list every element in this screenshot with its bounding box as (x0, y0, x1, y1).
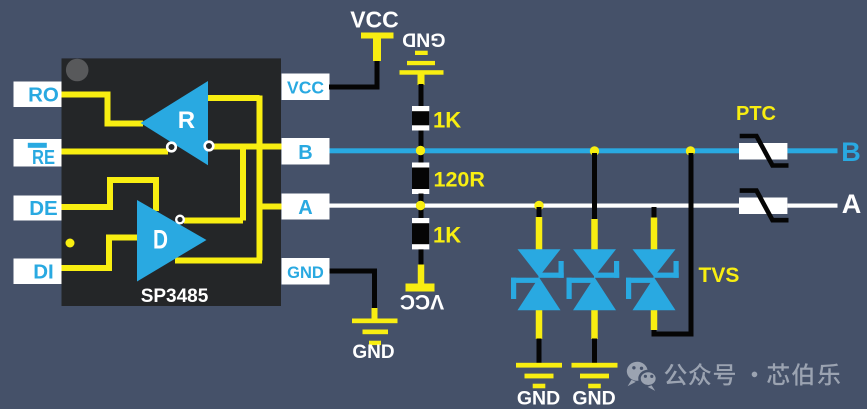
pin label DI (14, 259, 62, 285)
wire driver inverted output to B tap (184, 218, 243, 224)
svg-text:A: A (842, 189, 862, 219)
node B line (330, 148, 740, 153)
svg-text:PTC: PTC (736, 103, 776, 125)
op-amp D driver triangle (137, 200, 207, 282)
wire B net from receiver inverting input to pin B (211, 144, 282, 150)
wire driver output to A bus (175, 258, 262, 264)
pin label DE (14, 196, 62, 221)
junction dot B loop wire (686, 146, 695, 155)
wire VCC pin to VCC rail (329, 59, 377, 87)
junction dot B bias (416, 146, 425, 155)
ground TVS2 (572, 363, 618, 409)
pin label A (282, 194, 330, 220)
watermark wechat icon (627, 362, 657, 391)
junction dot B TVS2 (590, 146, 599, 155)
node A line (330, 204, 740, 208)
op-amp R receiver triangle (141, 81, 209, 165)
svg-text:1K: 1K (433, 108, 461, 133)
svg-text:GND: GND (402, 29, 445, 51)
wire GND pin to ground (330, 271, 375, 310)
TVS D2 bidirectional (567, 249, 620, 310)
svg-text:VCC: VCC (287, 78, 324, 98)
svg-text:GND: GND (352, 342, 394, 363)
svg-text:TVS: TVS (699, 264, 740, 287)
svg-text:VCC: VCC (350, 7, 399, 33)
wire DE to driver enable (61, 180, 156, 211)
svg-text:120R: 120R (434, 168, 486, 192)
watermark text (665, 363, 841, 386)
wire RO to receiver (61, 95, 143, 124)
svg-text:GND: GND (287, 264, 324, 282)
wire B to TVS2 (592, 153, 597, 221)
wire internal A bus vertical (257, 96, 263, 261)
pin label RE with overline (14, 139, 62, 169)
wire A to TVS3 (652, 207, 657, 219)
node B line after PTC (787, 148, 837, 153)
ground for GND pin (352, 308, 398, 363)
TVS D1 bidirectional (511, 249, 564, 310)
svg-text:D: D (153, 225, 168, 255)
wire B loop to TVS3 bottom (654, 153, 691, 334)
svg-text:RO: RO (28, 84, 59, 107)
junction dot A TVS1 (534, 201, 543, 210)
wire DI to driver input (61, 238, 138, 269)
power symbol VCC (flipped) at bottom of bias chain (400, 265, 444, 314)
wire RE to receiver enable (61, 149, 168, 155)
svg-text:B: B (841, 137, 861, 167)
svg-text:RE: RE (32, 146, 55, 169)
node dot near DI (66, 239, 75, 248)
TVS D3 bidirectional (626, 249, 679, 310)
svg-text:DE: DE (29, 197, 57, 220)
IC U1 SP3485 body (62, 58, 282, 307)
svg-text:R: R (178, 107, 195, 134)
wire A to TVS1 (537, 207, 542, 219)
svg-text:DI: DI (33, 261, 54, 284)
pin label VCC (282, 74, 330, 101)
wire (419, 194, 424, 219)
wire TVS3 bottom (651, 309, 658, 330)
pin label B (282, 138, 330, 165)
power symbol VCC top (350, 7, 399, 62)
wire TVS1 bottom (536, 309, 543, 339)
PTC fuse A line (739, 191, 789, 221)
wire A tap to pin A (257, 204, 282, 210)
svg-text:SP3485: SP3485 (141, 286, 209, 307)
resistor R2 120R (412, 163, 485, 195)
svg-text:B: B (298, 142, 312, 164)
inversion bubble receiver enable (167, 143, 176, 152)
wire (419, 84, 424, 107)
svg-text:A: A (298, 197, 312, 219)
junction dot A bias (416, 201, 425, 210)
svg-text:VCC: VCC (400, 290, 444, 313)
wire (419, 131, 424, 164)
wire B tap vertical to driver inverted output (240, 147, 246, 221)
resistor R1 1K (412, 106, 461, 133)
inversion bubble driver output B (176, 216, 184, 224)
pin label RO (14, 82, 62, 108)
ground (flipped) at top of bias chain (400, 29, 446, 86)
wire TVS2 bottom (591, 309, 598, 339)
node A line after PTC (787, 204, 837, 208)
inversion bubble receiver input B (205, 142, 214, 151)
wire receiver input A (top) (208, 95, 260, 101)
PTC fuse B line (736, 103, 789, 166)
ground TVS1 (516, 363, 562, 409)
svg-text:GND: GND (517, 388, 560, 409)
pin label GND (282, 258, 330, 285)
wire (419, 249, 424, 266)
svg-text:GND: GND (572, 388, 615, 409)
svg-text:1K: 1K (433, 223, 461, 248)
resistor R3 1K (412, 218, 461, 249)
